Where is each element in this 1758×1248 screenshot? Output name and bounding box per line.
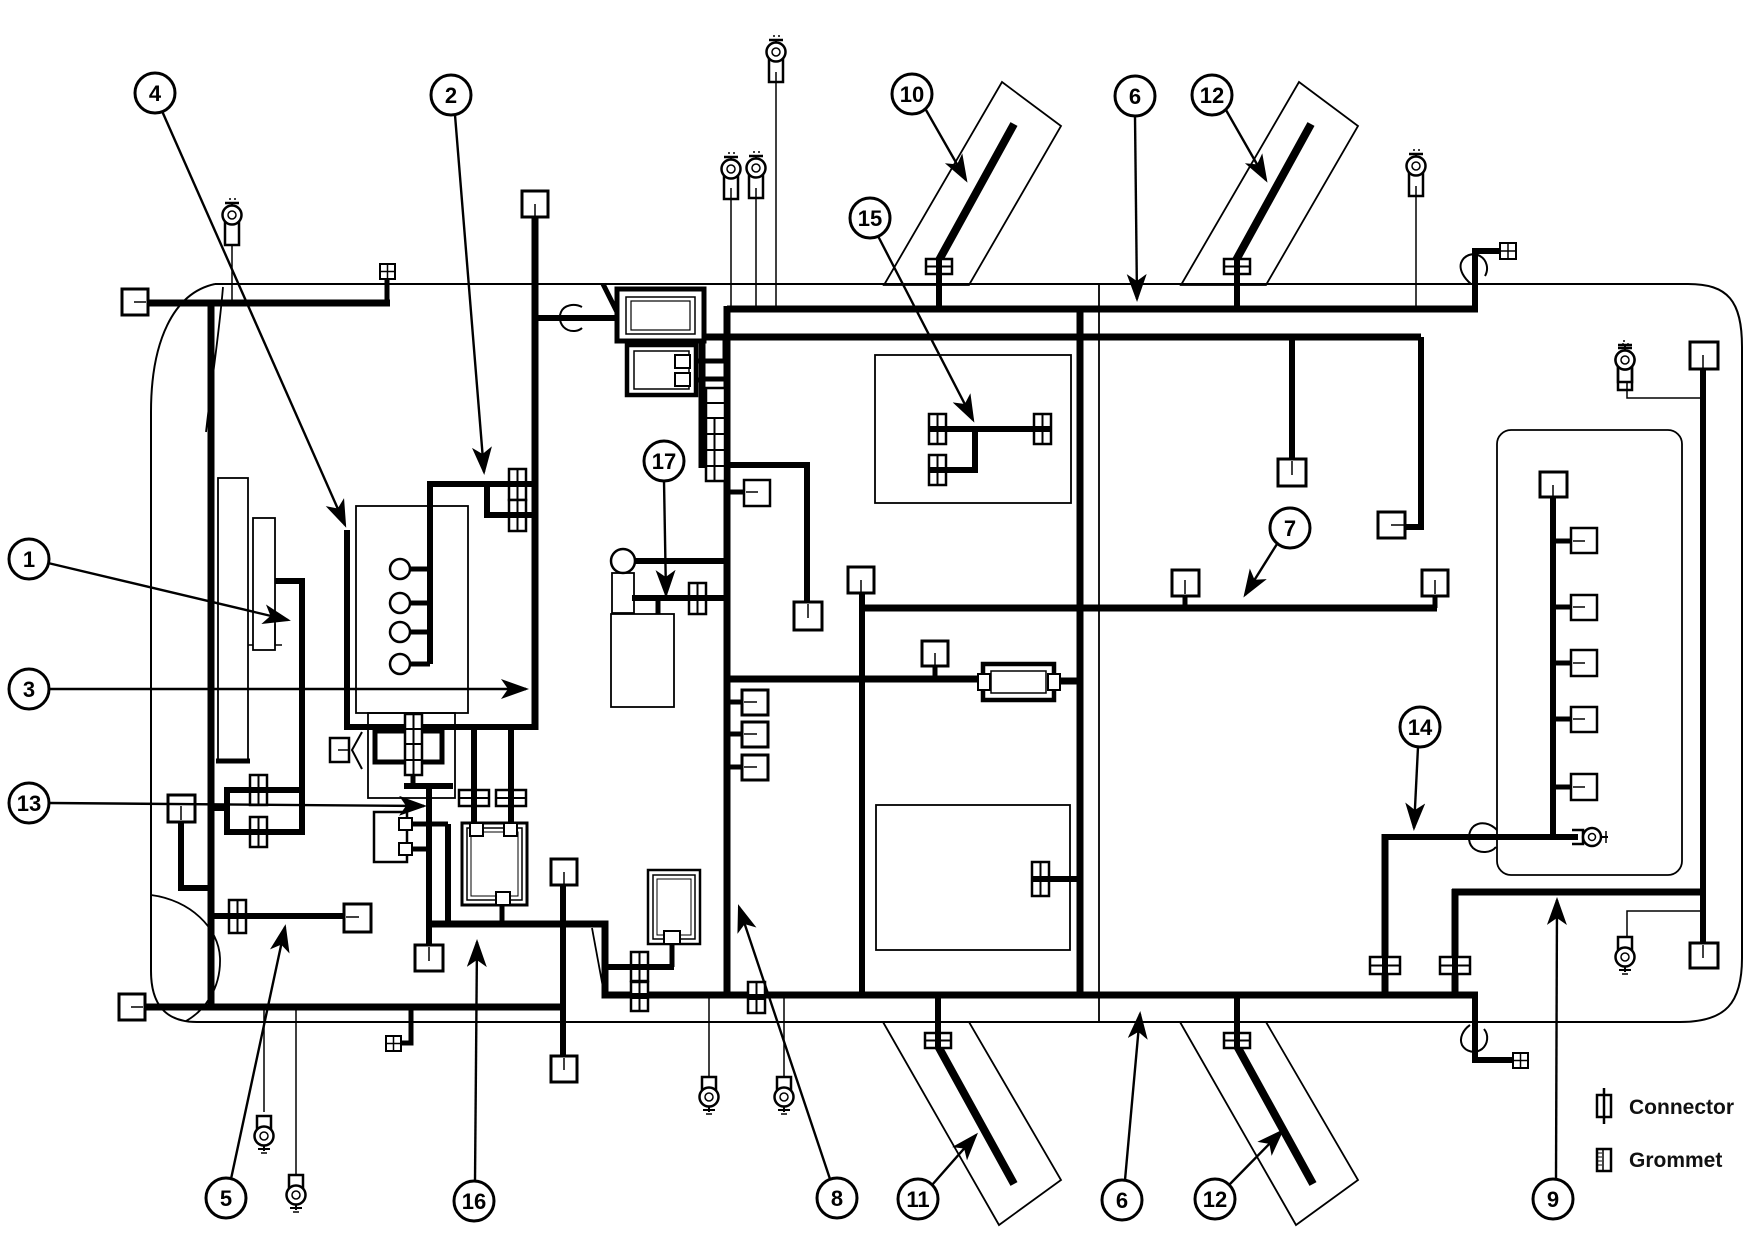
floor box top — [551, 859, 577, 885]
connector C20 (tailgate riser) — [1370, 957, 1400, 974]
quarter window box — [1278, 459, 1306, 486]
svg-text:3: 3 — [23, 677, 35, 702]
svg-text:7: 7 — [1284, 516, 1296, 541]
connector C6 (ECU left) — [459, 790, 489, 806]
main cabin harness — [702, 334, 1421, 341]
svg-text:1: 1 — [23, 547, 35, 572]
relay terminal pin 2 — [410, 601, 430, 606]
junction block B (cowl lower) — [627, 345, 696, 395]
sensor box — [922, 641, 948, 666]
main roof harness — [727, 306, 1478, 313]
ring terminal mid 3 — [767, 36, 786, 82]
roof marker lamp wire 2 — [1234, 264, 1240, 309]
svg-text:8: 8 — [831, 1186, 843, 1211]
rear cabin drop wire — [1406, 337, 1421, 527]
svg-text:4: 4 — [149, 81, 162, 106]
glovebox connector stub — [728, 490, 744, 495]
callout 12 top — [1192, 75, 1232, 115]
svg-text:9: 9 — [1547, 1187, 1559, 1212]
rear floor grommet box — [1513, 1053, 1528, 1068]
callout 15 — [850, 198, 890, 238]
svg-text:14: 14 — [1408, 715, 1433, 740]
callout 1 — [9, 539, 49, 579]
heater stub — [656, 598, 661, 614]
leader 9 — [1556, 900, 1557, 1179]
spine stub — [211, 805, 227, 811]
connector box cowl top — [522, 191, 548, 217]
grommet rear floor — [1461, 1025, 1487, 1052]
cross cabin harness — [727, 676, 985, 683]
ground lead x784 — [783, 998, 785, 1078]
node15 drop — [937, 429, 975, 470]
seat connector box right — [1422, 570, 1448, 596]
ground terminal hang E — [1616, 937, 1635, 974]
front wheel arch — [151, 895, 220, 1021]
callout 8 — [817, 1178, 857, 1218]
leader 12 bottom — [1229, 1131, 1282, 1185]
front lamp run — [211, 913, 346, 919]
ground lead x756 — [755, 188, 757, 309]
radiator rect2 step — [248, 624, 282, 645]
relay pin stub 2 — [407, 847, 429, 852]
thin wire console — [592, 928, 604, 993]
callout 4 — [135, 73, 175, 113]
door branch stub 5 — [1553, 785, 1573, 790]
engine harness jog — [487, 484, 535, 515]
connector C9 (console upper) — [631, 952, 648, 981]
callout 3 — [9, 669, 49, 709]
grommet roof rear — [1461, 254, 1487, 284]
ground terminal hang A — [255, 1116, 274, 1153]
legend connector icon — [1597, 1088, 1611, 1124]
connector C10 (console lower) — [631, 982, 648, 1011]
junction loop — [375, 731, 442, 762]
ground lead bottom right — [1627, 911, 1701, 938]
relay terminal pin 4 — [410, 662, 430, 667]
floor marker lamp wire 1 — [935, 995, 941, 1048]
connector C7 (ECU right) — [496, 790, 526, 806]
connector C4 (radiator bottom) — [250, 817, 267, 847]
svg-text:12: 12 — [1203, 1187, 1227, 1212]
floor marker lamp wire 2 — [1234, 995, 1240, 1048]
leader 3 — [49, 688, 526, 690]
leader 5 — [231, 927, 285, 1179]
door branch stub 3 — [1553, 661, 1573, 666]
connector C15 (node15 left bottom) — [929, 455, 946, 485]
pillar connector stub2 — [727, 732, 742, 737]
ground lead x264 — [263, 1008, 265, 1112]
ECU ground stub — [500, 905, 505, 924]
door connector box 1 — [1571, 528, 1597, 553]
engine harness top wire — [427, 481, 535, 487]
antenna frame 12 bottom — [1180, 1022, 1358, 1225]
floor box bottom — [551, 1056, 577, 1082]
connector box front bottom left — [119, 994, 145, 1020]
dash harness vertical — [699, 288, 706, 468]
dash bar over ladder — [699, 377, 730, 382]
engine harness bottom run — [344, 724, 538, 730]
leader 6 bottom — [1125, 1014, 1140, 1180]
door panel rounded box — [1497, 430, 1682, 875]
harness front top — [143, 300, 390, 307]
svg-text:6: 6 — [1116, 1188, 1128, 1213]
leader 2 — [455, 115, 484, 472]
ground lead x709 — [708, 998, 710, 1078]
svg-text:Grommet: Grommet — [1629, 1149, 1722, 1172]
antenna mast 12 top — [1235, 124, 1311, 262]
clip bracket — [352, 732, 362, 769]
legend grommet icon — [1597, 1149, 1611, 1171]
leader 7 — [1245, 544, 1277, 595]
ring terminal rear roof — [1407, 150, 1426, 196]
leader 13 — [49, 803, 424, 806]
wire relay to floor — [445, 824, 451, 924]
rear upper run — [1452, 889, 1703, 896]
door branch stub 2 — [1553, 605, 1573, 610]
wire radiator left joint — [224, 787, 230, 835]
relay bracket box — [374, 812, 412, 862]
ground terminal hang B — [287, 1175, 306, 1212]
harness left spine — [208, 300, 215, 1007]
relay terminal pin 3 — [410, 630, 430, 635]
callout 11 — [898, 1179, 938, 1219]
roof rear grommet box — [1500, 243, 1516, 259]
relay terminal pin 1 — [410, 567, 430, 572]
engine relay box outline — [356, 506, 468, 713]
antenna mast 12 bottom — [1237, 1046, 1313, 1184]
connector C1 (engine top) — [509, 469, 526, 500]
relay terminal circle 1 — [390, 559, 410, 579]
svg-text:11: 11 — [906, 1187, 929, 1212]
blower wire branch — [727, 465, 807, 603]
rear floor elbow — [1475, 995, 1513, 1060]
wire heater to pillar lower — [632, 595, 727, 601]
svg-text:2: 2 — [445, 83, 457, 108]
door harness main — [1550, 497, 1556, 837]
connector stack under fuse block — [405, 714, 422, 775]
console ECU block — [648, 870, 700, 944]
relay terminal circle 3 — [390, 622, 410, 642]
relay terminal circle 4 — [390, 654, 410, 674]
connector C3 (radiator top) — [250, 775, 267, 805]
engine harness main vertical — [532, 217, 539, 730]
pillar connector stub3 — [727, 765, 742, 770]
callout 6 top — [1115, 76, 1155, 116]
pillar connector box 2 — [742, 722, 768, 747]
bus bar under fuse block — [404, 783, 453, 789]
relay pin stub 1 — [407, 822, 448, 827]
antenna frame 11 — [883, 1022, 1061, 1225]
svg-text:Connector: Connector — [1629, 1096, 1734, 1119]
leader 12 top — [1226, 110, 1266, 180]
console tab stub — [670, 944, 675, 967]
connector C11 (floor center) — [748, 982, 765, 1013]
door harness connector top — [1540, 472, 1567, 497]
cowl line — [206, 287, 223, 432]
cowl crossing wire — [603, 284, 617, 312]
console vertical wire — [859, 593, 865, 995]
svg-text:13: 13 — [17, 791, 41, 816]
wire heater to pillar upper — [633, 558, 727, 564]
tailgate top run — [1382, 834, 1578, 840]
relay terminal circle 2 — [390, 593, 410, 613]
radiator rect 1 — [218, 478, 248, 762]
grommet box front — [380, 264, 395, 279]
callout 13 — [9, 783, 49, 823]
connector box front left — [122, 289, 148, 315]
roof marker lamp wire 1 — [936, 264, 942, 309]
sensor box stub — [933, 666, 938, 679]
leader 11 — [932, 1135, 976, 1185]
junction block A (cowl) — [617, 289, 704, 341]
ground terminal hang D — [775, 1077, 794, 1114]
seat connector stub left — [1183, 595, 1188, 608]
leader 15 — [878, 236, 973, 420]
door connector box 2 — [1571, 595, 1597, 620]
leader 1 — [48, 563, 288, 620]
svg-text:6: 6 — [1129, 84, 1141, 109]
callout 5 — [206, 1178, 246, 1218]
console top box — [848, 567, 874, 593]
svg-text:16: 16 — [462, 1189, 486, 1214]
branch to junction ladder — [411, 713, 416, 786]
leader 16 — [475, 942, 477, 1181]
ECU block — [462, 823, 527, 905]
svg-text:17: 17 — [652, 449, 676, 474]
door connector box 5 — [1571, 774, 1597, 800]
engine harness into relay box — [427, 481, 433, 664]
wire node13 box down — [181, 822, 208, 888]
callout 17 — [644, 441, 684, 481]
quarter window wire — [1289, 337, 1295, 459]
region box around node 15 — [875, 355, 1071, 503]
cowl grommet wire — [538, 315, 618, 321]
connector C16 (roof lamp 1) — [926, 259, 952, 274]
rear quarter wire — [1452, 889, 1459, 995]
box2 pin1 wire — [690, 338, 725, 361]
wire radiator links — [227, 787, 302, 793]
blower connector box — [794, 602, 822, 630]
callout 10 — [892, 74, 932, 114]
connector C17 (roof lamp 2) — [1224, 259, 1250, 274]
ground lead top right — [1627, 382, 1701, 398]
rear pillar box top — [1690, 342, 1718, 369]
ground lead x1416 — [1415, 186, 1417, 311]
antenna mast 10 — [938, 124, 1014, 262]
callout 16 — [454, 1181, 494, 1221]
box2 pin2 wire — [690, 378, 702, 383]
pillar connector box 3 — [742, 755, 768, 780]
leader 6 top — [1135, 116, 1137, 299]
connector C21 (rear quarter riser) — [1440, 957, 1470, 974]
seat connector box left — [1172, 570, 1199, 596]
connector C13 (node15 left top) — [929, 414, 946, 444]
ground lead x731 — [730, 188, 732, 309]
connector C19 (floor lamp 2) — [1224, 1033, 1250, 1048]
cross cabin harness right — [1052, 678, 1080, 685]
tailgate wire left — [1382, 834, 1389, 995]
heater unit lower rect — [611, 614, 674, 707]
console cross wire upper — [608, 964, 674, 970]
wire to lower connector — [426, 786, 432, 945]
stub to C12 — [1049, 876, 1080, 882]
antenna frame 12 top — [1181, 82, 1358, 285]
heater unit upper rect — [612, 573, 634, 613]
connector C2 (engine lower) — [509, 500, 526, 531]
heater motor circle — [611, 549, 635, 573]
wire radiator loop — [275, 581, 302, 835]
roof rear riser — [1475, 251, 1500, 309]
node15 jumper wire — [937, 426, 1042, 432]
ring terminal mid 1 — [722, 153, 741, 199]
connector box node13 — [168, 795, 195, 822]
svg-text:5: 5 — [220, 1186, 232, 1211]
leader 4 — [162, 111, 345, 525]
svg-text:10: 10 — [900, 82, 924, 107]
rear pillar wire — [1700, 368, 1706, 945]
harness stub node4 — [344, 530, 350, 727]
connector C5 (front lamp) — [229, 900, 246, 933]
pillar connector stubs — [727, 700, 742, 705]
harness front bottom — [141, 1004, 566, 1011]
region box lower cabin — [876, 805, 1070, 950]
ground terminal hang C — [700, 1077, 719, 1114]
ring terminal front — [223, 199, 242, 245]
callout 6 bottom — [1102, 1180, 1142, 1220]
ring terminal mid 2 — [747, 152, 766, 198]
connector C14 (node15 right) — [1034, 414, 1051, 444]
svg-text:15: 15 — [858, 206, 882, 231]
antenna mast 11 — [938, 1046, 1014, 1184]
callout 9 — [1533, 1179, 1573, 1219]
ground lead x232 — [231, 246, 233, 303]
stub to grommet box — [385, 277, 390, 303]
callout 14 — [1400, 707, 1440, 747]
wire radiator link2 — [227, 829, 302, 835]
inline unit cabin — [978, 664, 1060, 700]
floor console box stub — [560, 884, 566, 1056]
leader 8 — [739, 907, 830, 1179]
center pillar harness — [724, 306, 731, 995]
grommet cowl — [560, 305, 582, 331]
callout 7 — [1270, 508, 1310, 548]
antenna frame 10 — [884, 82, 1061, 285]
connector C12 (cabin hang) — [1032, 862, 1049, 896]
leader 17 — [664, 481, 666, 595]
connector C18 (floor lamp 1) — [925, 1033, 951, 1048]
callout 2 — [431, 75, 471, 115]
rear cabin box — [1378, 512, 1405, 538]
pillar connector box 1 — [742, 690, 768, 715]
fuse block outline — [368, 713, 455, 798]
svg-text:12: 12 — [1200, 83, 1224, 108]
door end ring terminal — [1572, 828, 1608, 846]
connector stack on dash — [705, 388, 725, 481]
door branch stub 1 — [1553, 539, 1573, 544]
under dash box — [415, 945, 443, 971]
door branch stub 4 — [1553, 717, 1573, 722]
vehicle body outline — [151, 284, 1742, 1022]
thin body division line — [1098, 285, 1100, 1022]
ECU feed wire left — [471, 727, 477, 823]
radiator rect 2 — [253, 518, 275, 650]
mid cabin harness — [862, 605, 1437, 612]
ring terminal quarter small — [1616, 341, 1635, 382]
door connector box 3 — [1571, 650, 1597, 676]
main floor harness — [429, 924, 1478, 995]
seat connector stub right — [1433, 595, 1438, 608]
rear pillar box bottom — [1690, 943, 1718, 968]
roof drop wire — [1077, 306, 1084, 995]
door connector box 4 — [1571, 707, 1597, 732]
leader 14 — [1414, 747, 1418, 828]
leader 10 — [926, 110, 966, 180]
connector box front lamp — [344, 904, 371, 932]
ECU feed wire right — [508, 727, 514, 823]
clip box fuse block — [330, 738, 349, 762]
connector C8 (heater) — [689, 583, 706, 614]
callout 12 bottom — [1195, 1179, 1235, 1219]
grommet tailgate — [1469, 823, 1497, 852]
ground lead x776 — [775, 72, 777, 309]
ring terminal quarter top — [1616, 344, 1635, 390]
courtesy lamp elbow — [400, 1007, 411, 1043]
courtesy grommet box — [386, 1036, 401, 1051]
ground lead x296 — [295, 1008, 297, 1176]
radiator bottom bar — [216, 759, 250, 764]
glovebox connector box — [744, 480, 770, 506]
